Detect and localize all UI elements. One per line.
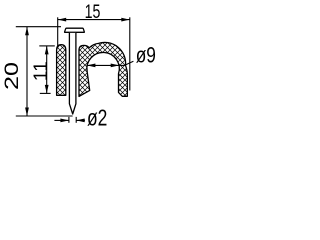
dim 20: top extension line <box>16 26 61 28</box>
dim 15: left extension line <box>57 17 59 48</box>
svg-text:15: 15 <box>85 1 101 23</box>
clip left channel wall (cross-hatched section) <box>57 45 66 96</box>
dim o2: right arrow pointing left <box>76 119 85 121</box>
dim 11: dimension line <box>46 46 48 94</box>
dim 11: bottom arrowhead <box>45 85 49 94</box>
clip right channel wall + circular saddle ring + right foot (cross-hatched section) <box>79 42 127 96</box>
dim 11: bottom extension line <box>40 92 51 94</box>
dim o2: right extension line <box>75 117 77 123</box>
dim 20: dimension line <box>26 27 28 116</box>
dim 20: top arrowhead <box>25 27 29 36</box>
nail shank with point <box>69 33 76 114</box>
nail head <box>65 28 85 32</box>
dim o2: left arrow pointing right <box>54 119 69 121</box>
svg-text:11: 11 <box>31 61 52 81</box>
svg-text:ø2: ø2 <box>87 105 107 131</box>
dim 15: right arrowhead <box>121 18 130 22</box>
dim 20: bottom arrowhead <box>25 108 29 117</box>
svg-text:20: 20 <box>2 62 23 90</box>
svg-text:ø9: ø9 <box>136 42 156 67</box>
dim o9: leader to label <box>119 64 124 66</box>
dim o2: left extension line <box>68 117 70 123</box>
dim 11: top extension line <box>39 45 55 47</box>
dim 15: dimension line <box>58 19 130 21</box>
dim o9: double-headed arrow across cable hole <box>87 64 119 66</box>
dim 15: left arrowhead <box>58 18 66 22</box>
dim 11: top arrowhead <box>45 46 49 55</box>
dim 15: right extension line <box>129 17 131 90</box>
dim 20: bottom extension line <box>16 115 73 117</box>
